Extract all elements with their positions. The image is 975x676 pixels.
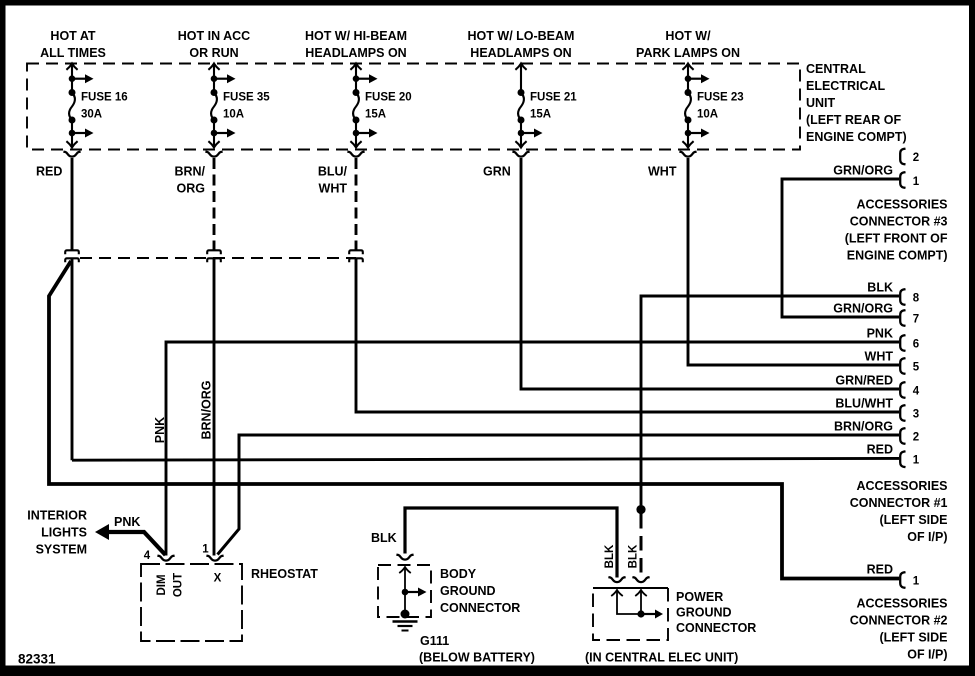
svg-text:WHT: WHT	[648, 165, 677, 179]
svg-text:30A: 30A	[81, 109, 102, 121]
svg-text:GRN/ORG: GRN/ORG	[833, 302, 893, 316]
svg-text:1: 1	[202, 544, 209, 556]
svg-text:CONNECTOR #1: CONNECTOR #1	[850, 496, 948, 510]
ground symbol G111	[401, 610, 410, 619]
body ground connector box	[378, 565, 431, 617]
interior lights arrow	[95, 524, 109, 540]
wire BLK pin 8	[641, 296, 899, 505]
svg-text:(LEFT FRONT OF: (LEFT FRONT OF	[845, 232, 948, 246]
fuse 20	[347, 64, 377, 157]
central electrical unit dashed box	[27, 64, 800, 150]
inline connector pair on BLU/WHT	[349, 250, 363, 262]
junction dot BLK	[636, 505, 645, 514]
svg-text:BLK: BLK	[867, 281, 893, 295]
connector 1 pin 6	[900, 335, 905, 351]
svg-text:ORG: ORG	[177, 182, 205, 196]
svg-text:BRN/ORG: BRN/ORG	[200, 380, 214, 439]
wire BRN/ORG branch to pin 2	[218, 435, 900, 555]
body ground inner wire	[404, 576, 406, 613]
svg-text:(IN CENTRAL ELEC UNIT): (IN CENTRAL ELEC UNIT)	[585, 651, 738, 665]
svg-text:BLK: BLK	[371, 531, 397, 545]
svg-text:PNK: PNK	[867, 327, 893, 341]
wire BRN/ORG column dashed	[213, 158, 216, 245]
svg-text:PNK: PNK	[114, 515, 140, 529]
svg-text:RHEOSTAT: RHEOSTAT	[251, 567, 318, 581]
wire GRN to pin 4	[521, 158, 899, 389]
svg-text:7: 7	[913, 314, 919, 326]
svg-text:CONNECTOR: CONNECTOR	[676, 621, 756, 635]
svg-text:ALL TIMES: ALL TIMES	[40, 46, 106, 60]
rheostat box	[141, 564, 242, 641]
svg-text:(LEFT SIDE: (LEFT SIDE	[879, 631, 947, 645]
svg-text:OF I/P): OF I/P)	[907, 648, 947, 662]
connector 1 pin 8	[900, 289, 905, 305]
svg-text:3: 3	[913, 409, 919, 421]
svg-text:GROUND: GROUND	[676, 606, 732, 620]
connector 3 pin 1	[900, 172, 905, 188]
svg-text:BRN/ORG: BRN/ORG	[834, 420, 893, 434]
svg-text:GRN/RED: GRN/RED	[835, 374, 893, 388]
svg-text:WHT: WHT	[319, 182, 348, 196]
wire WHT to pin 5	[688, 158, 899, 365]
svg-text:HOT IN ACC: HOT IN ACC	[178, 29, 250, 43]
svg-text:4: 4	[913, 386, 920, 398]
svg-text:ENGINE COMPT): ENGINE COMPT)	[847, 249, 948, 263]
svg-text:5: 5	[913, 362, 920, 374]
svg-text:82331: 82331	[18, 652, 56, 667]
body ground cup	[396, 555, 413, 560]
svg-text:POWER: POWER	[676, 590, 723, 604]
svg-text:2: 2	[913, 432, 919, 444]
svg-text:GRN: GRN	[483, 165, 511, 179]
fuse 21	[512, 64, 542, 157]
svg-text:BODY: BODY	[440, 567, 477, 581]
power ground left cup	[608, 577, 625, 582]
fuse 23	[679, 64, 709, 157]
connector 1 pin 4	[900, 382, 905, 398]
connector 1 pin 1	[900, 451, 905, 467]
power ground pin arrow left	[611, 590, 623, 599]
svg-text:PNK: PNK	[153, 417, 167, 443]
wire BLK body ground	[405, 508, 617, 578]
svg-text:4: 4	[144, 550, 151, 562]
svg-text:BLK: BLK	[628, 544, 640, 568]
svg-text:FUSE 23: FUSE 23	[697, 92, 744, 104]
svg-text:SYSTEM: SYSTEM	[36, 543, 87, 557]
connector 3 pin 2	[900, 149, 905, 165]
svg-text:HOT W/ LO-BEAM: HOT W/ LO-BEAM	[468, 29, 575, 43]
svg-text:10A: 10A	[697, 109, 718, 121]
connector 1 pin 2	[900, 428, 905, 444]
svg-text:2: 2	[913, 152, 919, 164]
wire BLU/WHT to pin 3	[356, 258, 899, 412]
wire GRN/ORG connector 3 to pin 7	[782, 179, 899, 317]
connector 1 pin 5	[900, 358, 905, 374]
svg-text:ACCESSORIES: ACCESSORIES	[857, 198, 948, 212]
svg-text:BLK: BLK	[604, 544, 616, 568]
thick RED branch to connector 2	[49, 261, 899, 579]
svg-text:BLU/: BLU/	[318, 165, 348, 179]
wire PNK to pin 6	[166, 342, 899, 556]
svg-text:ELECTRICAL: ELECTRICAL	[806, 79, 886, 93]
power ground pin arrow right	[635, 590, 647, 599]
svg-text:ACCESSORIES: ACCESSORIES	[857, 479, 948, 493]
svg-text:(LEFT SIDE: (LEFT SIDE	[879, 513, 947, 527]
fuse 16	[63, 64, 93, 157]
svg-text:10A: 10A	[223, 109, 244, 121]
svg-text:X: X	[214, 573, 222, 585]
svg-text:FUSE 35: FUSE 35	[223, 92, 270, 104]
svg-text:CONNECTOR: CONNECTOR	[440, 601, 520, 615]
wire RED column	[71, 158, 74, 250]
svg-text:6: 6	[913, 339, 919, 351]
svg-text:ACCESSORIES: ACCESSORIES	[857, 597, 948, 611]
inline connector pair on RED	[65, 250, 79, 262]
svg-text:ENGINE COMPT): ENGINE COMPT)	[806, 130, 907, 144]
svg-text:15A: 15A	[530, 109, 551, 121]
svg-text:BLU/WHT: BLU/WHT	[835, 397, 893, 411]
svg-text:1: 1	[913, 576, 920, 588]
svg-text:1: 1	[913, 455, 920, 467]
wire RED to pin 1	[72, 458, 899, 460]
svg-text:FUSE 16: FUSE 16	[81, 92, 128, 104]
wire BLU/WHT column dashed	[355, 158, 358, 245]
svg-text:HOT W/ HI-BEAM: HOT W/ HI-BEAM	[305, 29, 407, 43]
dashed BLK to power ground	[640, 514, 643, 578]
svg-text:WHT: WHT	[865, 350, 894, 364]
power ground inner wires	[617, 599, 641, 614]
svg-text:(BELOW BATTERY): (BELOW BATTERY)	[419, 651, 535, 665]
svg-text:UNIT: UNIT	[806, 96, 836, 110]
inline connector pair on BRN/ORG	[207, 250, 221, 262]
svg-text:CONNECTOR #3: CONNECTOR #3	[850, 215, 948, 229]
svg-text:CENTRAL: CENTRAL	[806, 62, 866, 76]
svg-text:OF I/P): OF I/P)	[907, 530, 947, 544]
svg-text:FUSE 21: FUSE 21	[530, 92, 577, 104]
svg-text:1: 1	[913, 176, 920, 188]
svg-text:GROUND: GROUND	[440, 584, 496, 598]
svg-text:OR RUN: OR RUN	[189, 46, 238, 60]
svg-text:CONNECTOR #2: CONNECTOR #2	[850, 614, 948, 628]
rheostat pin 1 cup	[206, 556, 223, 561]
connector 2 pin 1	[900, 572, 905, 588]
svg-text:15A: 15A	[365, 109, 386, 121]
power ground connector box	[593, 587, 668, 589]
svg-text:INTERIOR: INTERIOR	[27, 509, 87, 523]
svg-text:G111: G111	[420, 634, 449, 648]
svg-text:DIM: DIM	[156, 574, 168, 595]
svg-text:PARK LAMPS ON: PARK LAMPS ON	[636, 46, 740, 60]
body ground pin arrow	[399, 567, 411, 576]
svg-text:BRN/: BRN/	[174, 165, 205, 179]
body ground tap arrow	[402, 588, 427, 597]
svg-text:RED: RED	[867, 563, 893, 577]
svg-text:GRN/ORG: GRN/ORG	[833, 164, 893, 178]
svg-text:8: 8	[913, 293, 920, 305]
power ground junction dot and tap	[637, 610, 644, 617]
svg-text:LIGHTS: LIGHTS	[41, 526, 87, 540]
svg-text:HEADLAMPS ON: HEADLAMPS ON	[305, 46, 406, 60]
svg-text:RED: RED	[36, 165, 62, 179]
svg-text:RED: RED	[867, 443, 893, 457]
connector 1 pin 7	[900, 310, 905, 326]
dashed bus line	[80, 257, 356, 259]
svg-text:HEADLAMPS ON: HEADLAMPS ON	[470, 46, 571, 60]
svg-text:HOT AT: HOT AT	[50, 29, 95, 43]
svg-text:FUSE 20: FUSE 20	[365, 92, 412, 104]
rheostat pin 4 cup	[157, 556, 174, 561]
svg-text:OUT: OUT	[173, 573, 185, 597]
svg-text:(LEFT REAR OF: (LEFT REAR OF	[806, 113, 901, 127]
power ground right cup	[632, 577, 649, 582]
svg-text:HOT W/: HOT W/	[665, 29, 711, 43]
fuse 35	[205, 64, 235, 157]
connector 1 pin 3	[900, 405, 905, 421]
